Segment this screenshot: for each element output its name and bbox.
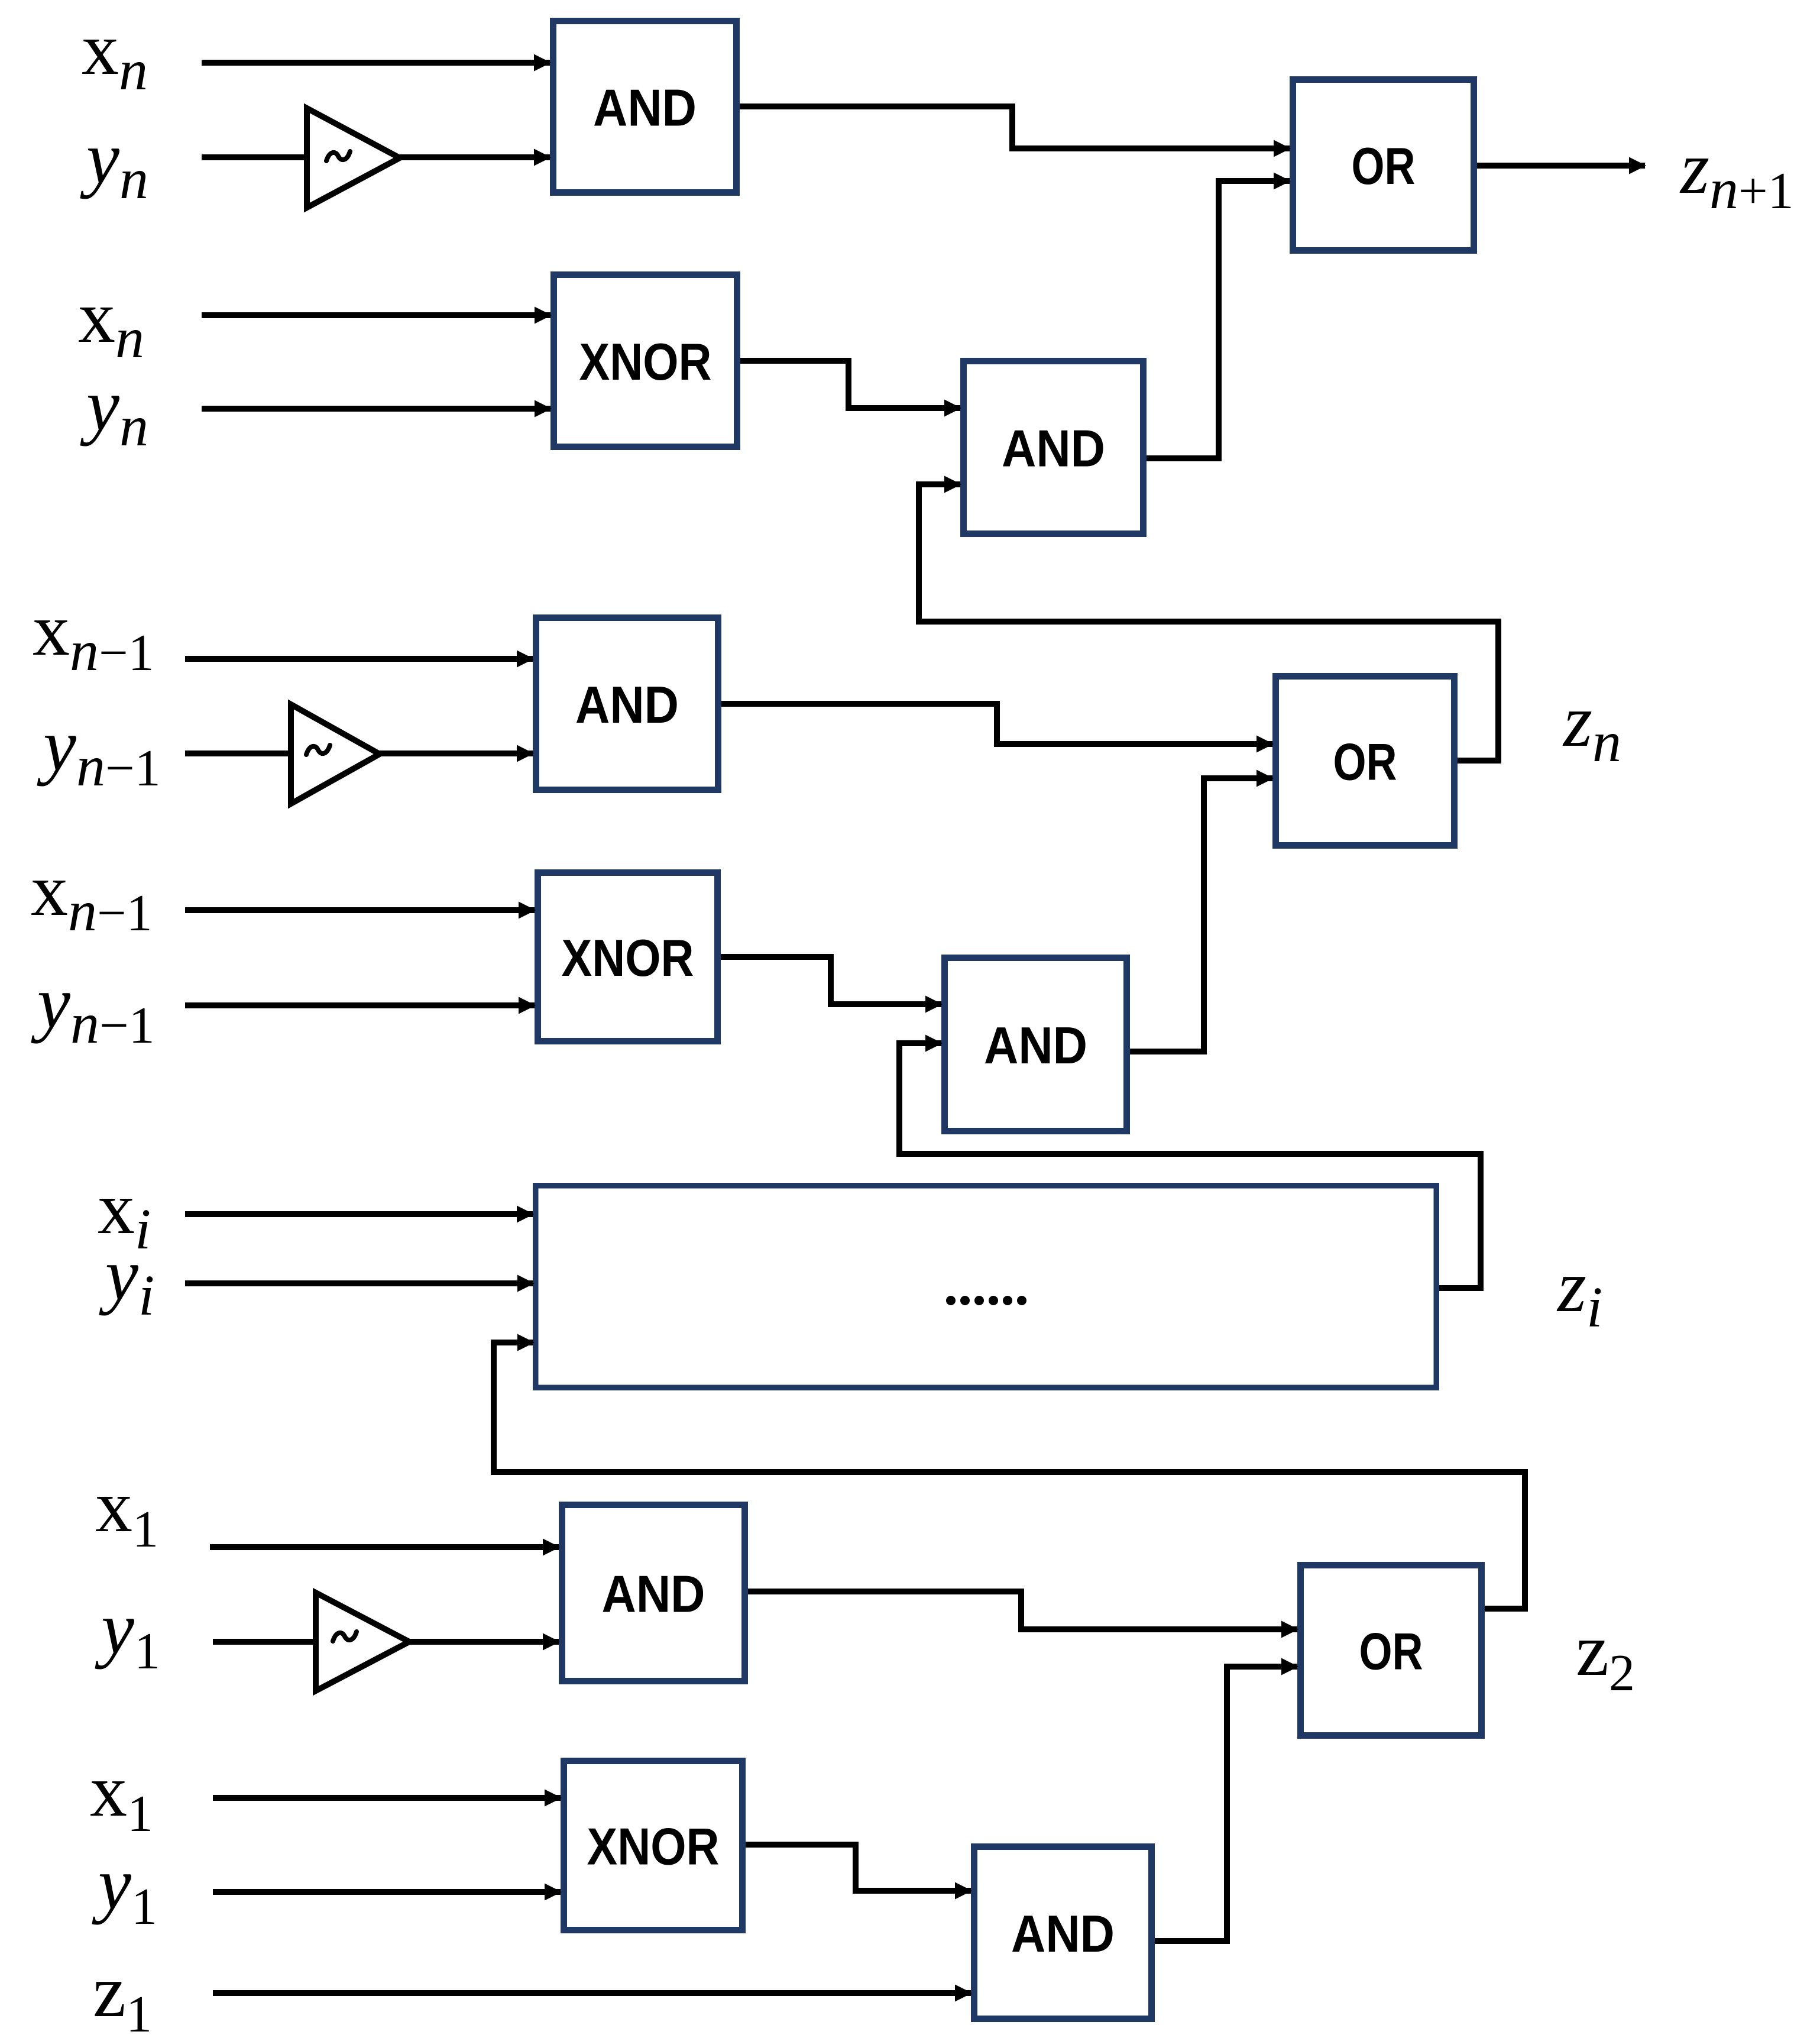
wire y_i to BIG <box>185 1280 533 1286</box>
svg-text:AND: AND <box>575 675 679 734</box>
wire z_n feedback U8 to U3 <box>919 484 1498 761</box>
wire U5 to U8 <box>721 704 1272 744</box>
wire U7 to U8 <box>1130 778 1272 1052</box>
wire y_n-1 to buffer B2 <box>185 750 292 756</box>
svg-text:XNOR: XNOR <box>579 332 712 391</box>
wire x_i to BIG <box>185 1211 533 1217</box>
wire x_n to U1 <box>202 60 550 66</box>
wire y_1 to U10 <box>213 1889 561 1895</box>
wire x_1 to U9 <box>210 1544 559 1550</box>
svg-text:AND: AND <box>984 1016 1087 1075</box>
wire z_i feedback BIG to U7 <box>899 1043 1481 1288</box>
svg-text:OR: OR <box>1352 137 1416 195</box>
OR gate U8 <box>1276 677 1455 846</box>
OR gate U4 <box>1293 80 1474 251</box>
wire U3 to U4 <box>1147 181 1290 458</box>
XNOR gate U2 <box>554 275 737 447</box>
wire B3 to U9 <box>409 1639 559 1645</box>
wire U11 to U12 <box>1155 1667 1297 1941</box>
AND gate U1 <box>553 21 737 193</box>
wire U1 to U4 <box>740 106 1290 148</box>
wire U4 output z_n+1 <box>1477 163 1645 169</box>
wire x_n to U2 <box>202 312 550 318</box>
wire x_1 to U10 <box>213 1795 561 1801</box>
svg-text:OR: OR <box>1333 733 1397 791</box>
OR gate U12 <box>1301 1565 1482 1736</box>
wire y_n to buffer B1 <box>202 154 307 160</box>
svg-text:AND: AND <box>1011 1904 1115 1963</box>
AND gate U5 <box>536 618 718 790</box>
wire z_2 feedback U12 to BIG <box>494 1343 1525 1609</box>
inverter buffer B2 <box>291 704 380 804</box>
wire x_n-1 to U6 <box>185 907 535 913</box>
inverter buffer B1 <box>307 108 400 208</box>
XNOR gate U10 <box>564 1761 743 1930</box>
wire y_n to U2 <box>202 406 550 412</box>
AND gate U7 <box>945 958 1127 1131</box>
svg-text:AND: AND <box>602 1565 705 1623</box>
wire U2 to U3 <box>740 361 960 408</box>
AND gate U11 <box>974 1847 1152 2019</box>
AND gate U3 <box>964 361 1144 534</box>
wire z_1 to U11 <box>213 1990 971 1996</box>
wire U10 to U11 <box>746 1845 971 1891</box>
svg-text:OR: OR <box>1359 1622 1423 1681</box>
wire y_n-1 to U6 <box>185 1002 535 1008</box>
wire U6 to U7 <box>721 957 941 1004</box>
wire x_n-1 to U5 <box>185 656 533 662</box>
dotted-stage box (......) <box>536 1186 1437 1388</box>
svg-text:XNOR: XNOR <box>587 1817 720 1876</box>
AND gate U9 <box>562 1505 745 1681</box>
wire y_1 to buffer B3 <box>213 1639 316 1645</box>
svg-text:XNOR: XNOR <box>562 929 694 987</box>
inverter buffer B3 <box>316 1593 409 1691</box>
svg-text:AND: AND <box>1002 419 1105 478</box>
wire U9 to U12 <box>748 1591 1297 1629</box>
wire B2 to U5 <box>380 750 533 756</box>
svg-text:AND: AND <box>593 79 697 137</box>
wire B1 to U1 <box>400 154 550 160</box>
XNOR gate U6 <box>538 873 718 1041</box>
